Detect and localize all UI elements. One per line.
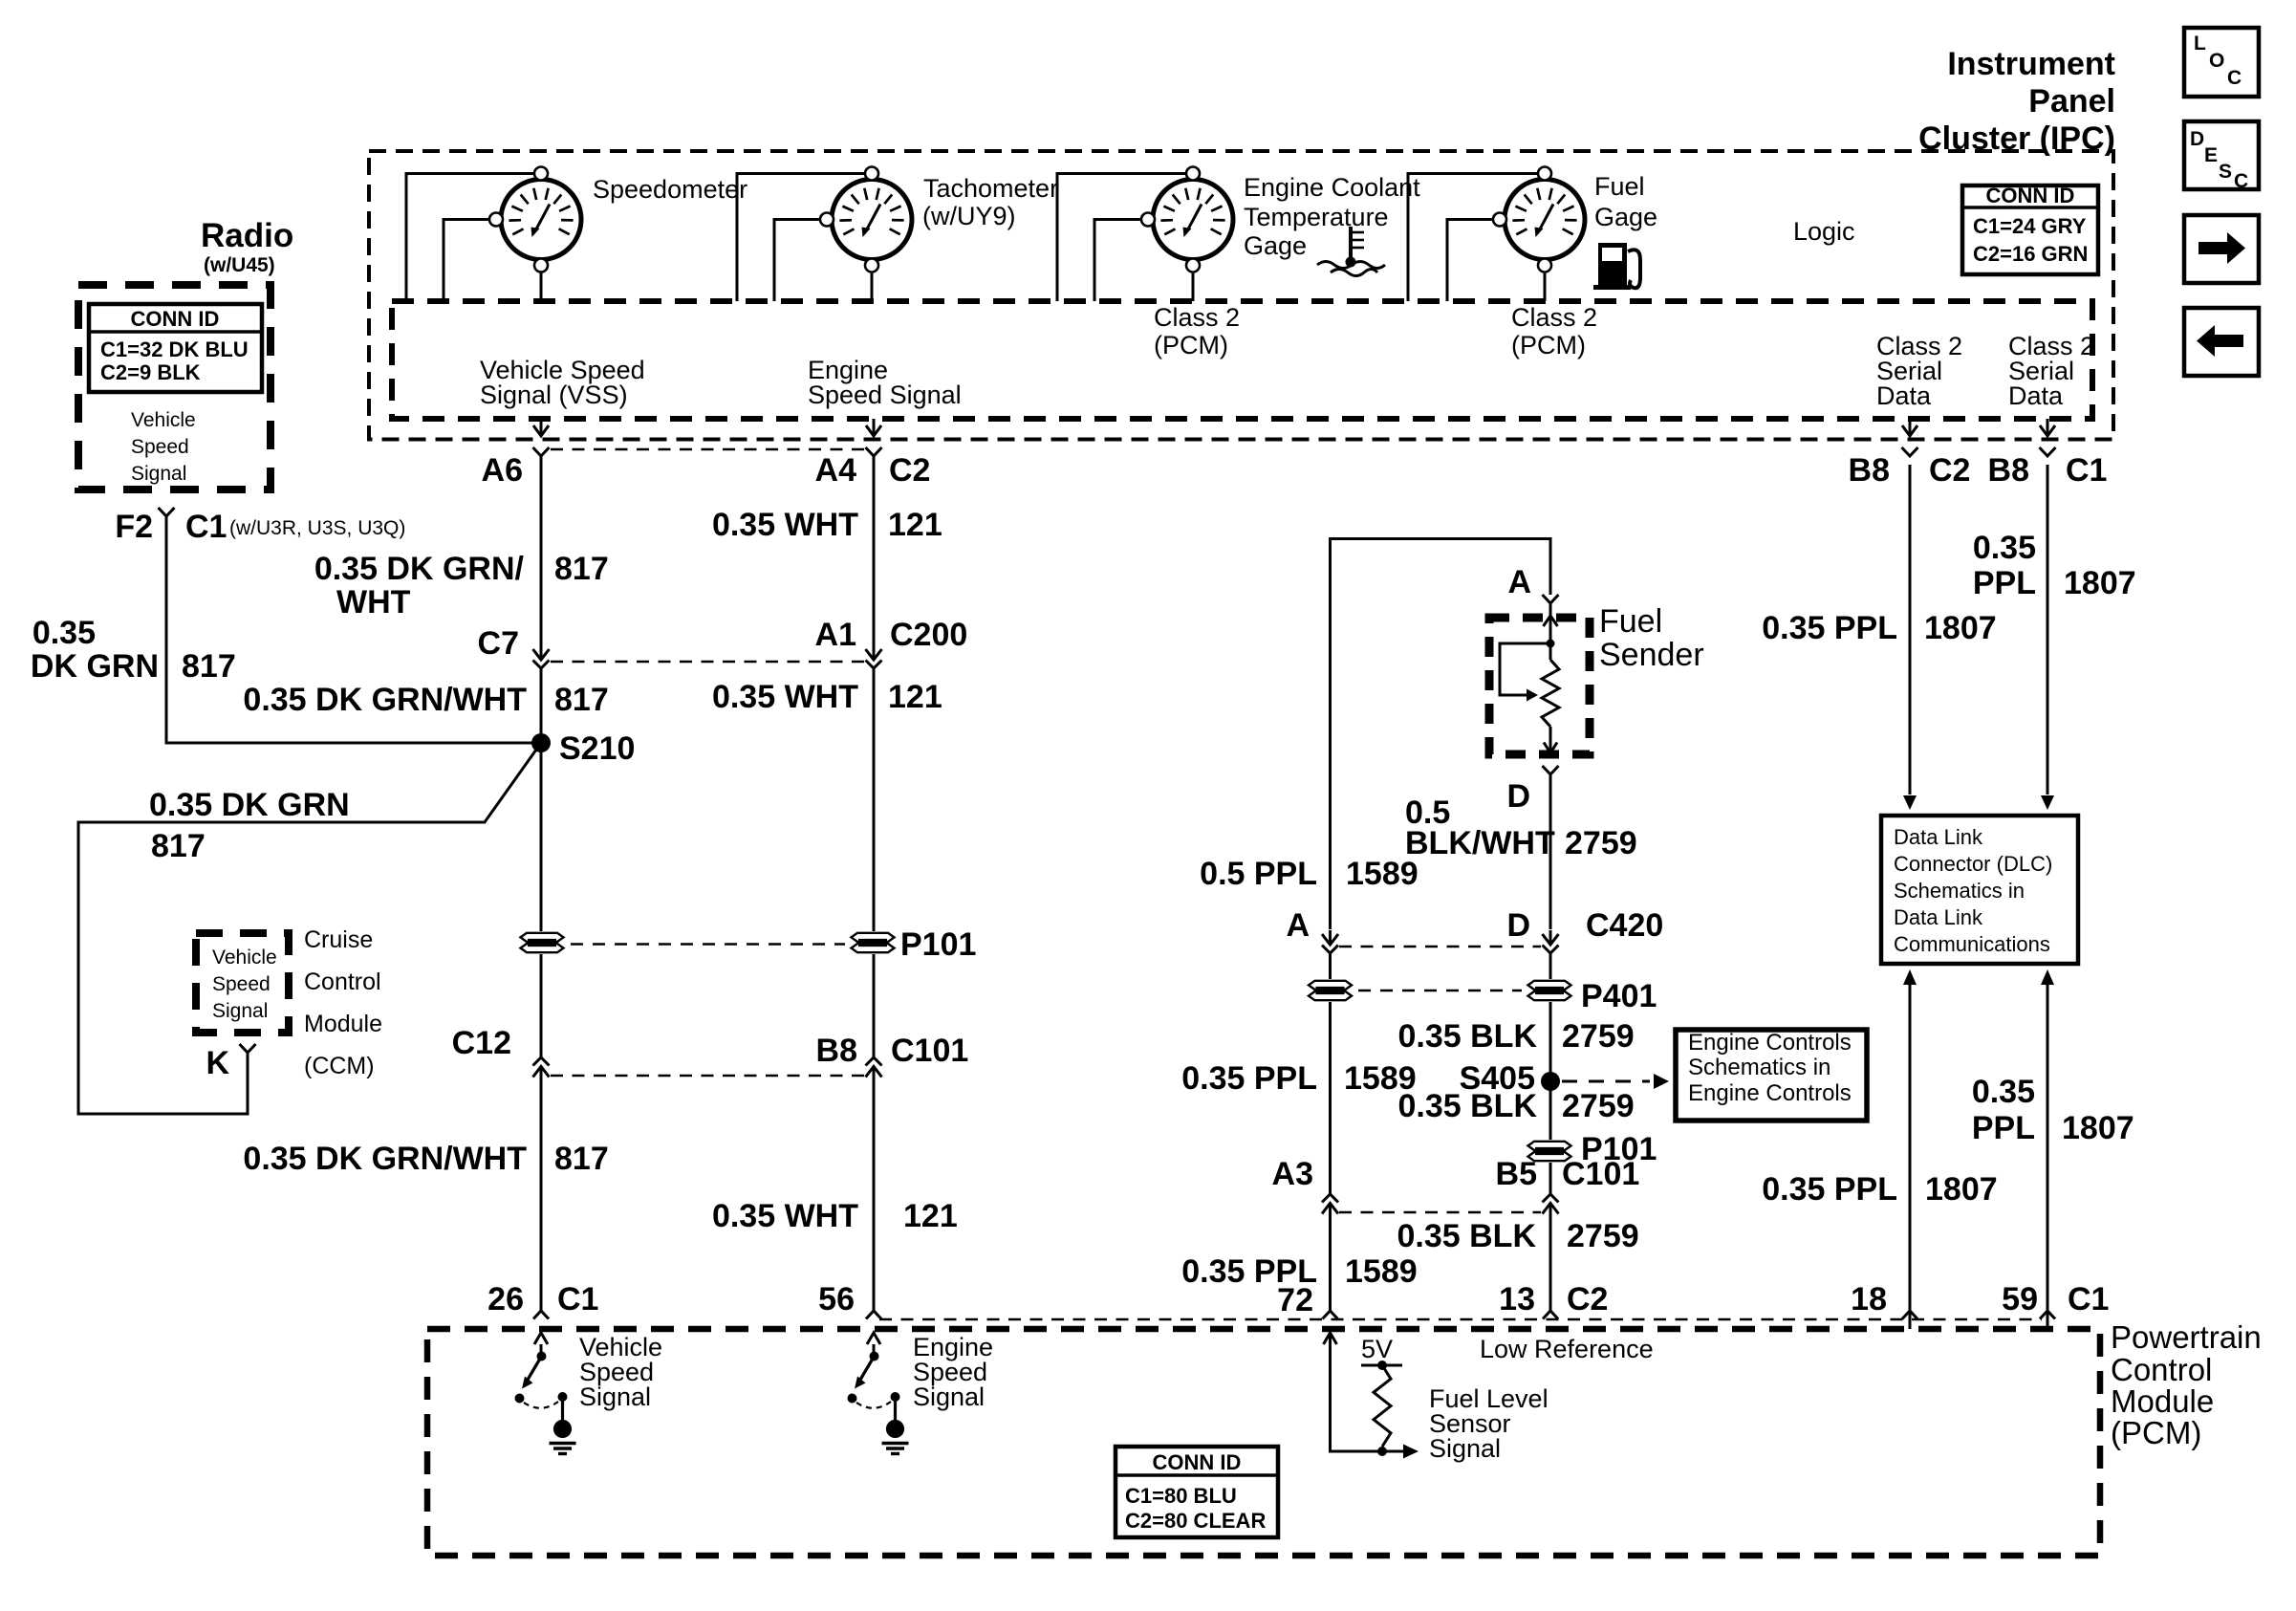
svg-text:A3: A3: [1272, 1156, 1313, 1192]
in-line connector P101 on VSS wire: [521, 933, 564, 942]
svg-text:Fuel: Fuel: [1599, 603, 1662, 640]
harness Y fork below IPC x=566: [533, 447, 550, 456]
harness Y fork below fuel sender: [1543, 766, 1559, 774]
harness Y fork at PCM pin 13: [1543, 1311, 1558, 1319]
svg-text:S210: S210: [559, 730, 635, 767]
svg-text:Connector (DLC): Connector (DLC): [1894, 852, 2052, 876]
nav icon: DESC box: [2184, 121, 2259, 192]
wire: engine speed 121 from A4 to C200: [873, 456, 876, 646]
svg-text:B8: B8: [816, 1033, 857, 1069]
switch: engine speed signal generator: [848, 1344, 909, 1454]
svg-text:PPL: PPL: [1973, 565, 2036, 601]
connector exit arrow at IPC bottom x=2142: [2047, 419, 2049, 435]
wire: Engine Coolant gauge output to connector: [1192, 272, 1195, 302]
svg-text:F2: F2: [115, 509, 153, 545]
svg-text:Signal: Signal: [579, 1382, 651, 1411]
svg-text:A6: A6: [482, 452, 523, 489]
svg-text:Signal: Signal: [131, 463, 186, 485]
svg-text:0.35 BLK: 0.35 BLK: [1398, 1018, 1538, 1055]
wire: 0.35 BLK from C101 to PCM pin 13: [1549, 1227, 1552, 1311]
label: Powertrain Control Module (PCM): [2111, 1319, 2262, 1450]
note box: Engine Controls Schematics in Engine Controls: [1676, 1030, 1867, 1121]
svg-text:Radio: Radio: [201, 217, 293, 254]
wire: VSS 817 from C101 to PCM pin 26: [540, 1090, 543, 1311]
svg-text:(PCM): (PCM): [1511, 331, 1586, 359]
svg-text:0.35 DK GRN/WHT: 0.35 DK GRN/WHT: [243, 1141, 527, 1177]
wire: 0.5 PPL 1589 from jumper to C420: [1329, 669, 1332, 929]
IPC inner dashed sub-box (connector face): [392, 301, 2092, 419]
wire: BLK from P101 to C101: [1549, 1163, 1552, 1194]
svg-text:1807: 1807: [2062, 1110, 2134, 1146]
label: Vehicle Speed Signal (CCM): [212, 947, 277, 1022]
svg-text:C101: C101: [891, 1033, 968, 1069]
connector crossing C101 left fuel wire: [1322, 1194, 1338, 1203]
PCM input arrow pin 72 and 5V pull-up circuit: [1324, 1333, 1337, 1344]
harness Y fork at PCM pin 56: [866, 1311, 881, 1319]
wire: 0.35 DK GRN 817 from S210 to CCM (diagonal + loop): [78, 743, 541, 1114]
svg-text:CONN ID: CONN ID: [131, 307, 220, 331]
wire: class 2 serial data left (0.35 PPL 1807) down to DLC: [1909, 465, 1912, 795]
svg-text:D: D: [1506, 778, 1530, 815]
svg-text:26: 26: [487, 1281, 524, 1317]
gauge: Tachometer: [820, 167, 912, 272]
svg-text:121: 121: [888, 679, 942, 715]
svg-text:Data: Data: [1876, 381, 1932, 410]
svg-text:1807: 1807: [1925, 1171, 1998, 1208]
wire: engine speed 121 from C200 to P101: [873, 668, 876, 931]
wire label 0.35 DK GRN | 817 (radio wire): [31, 615, 236, 685]
wire: fuel sender pin A lead: [1549, 603, 1552, 618]
connector crossing C101 at engine speed wire: [866, 1057, 882, 1066]
svg-text:0.35 BLK: 0.35 BLK: [1398, 1088, 1538, 1124]
wire: BLK from C420 to P401: [1549, 953, 1552, 979]
svg-text:59: 59: [2002, 1281, 2038, 1317]
connector ID table: PCM CONN ID C1=80 BLU / C2=80 CLEAR: [1116, 1447, 1278, 1537]
wire label 0.35 WHT | 121 (mid): [712, 679, 942, 715]
svg-text:Control: Control: [304, 969, 381, 995]
wire: Tachometer gauge left feed: [774, 220, 825, 302]
svg-text:18: 18: [1851, 1281, 1887, 1317]
connector ID table: IPC CONN ID C1=24 GRY / C2=16 GRN: [1962, 184, 2098, 274]
svg-text:Control: Control: [2111, 1352, 2212, 1387]
svg-text:Signal: Signal: [913, 1382, 985, 1411]
connector crossing C420 left wire: [1329, 930, 1332, 944]
svg-text:A4: A4: [815, 452, 857, 489]
icon: fuel pump: [1593, 243, 1640, 290]
svg-text:C2: C2: [889, 452, 930, 489]
svg-text:C200: C200: [890, 617, 967, 653]
svg-text:Gage: Gage: [1244, 231, 1307, 260]
svg-text:56: 56: [818, 1281, 855, 1317]
in-line connector P101 on engine speed wire: [852, 933, 895, 942]
svg-text:WHT: WHT: [336, 584, 411, 620]
wire: VSS 817 from S210 to P101: [540, 743, 543, 931]
svg-text:0.35 DK GRN/: 0.35 DK GRN/: [314, 551, 525, 587]
thin dashed line between P101 halves: [571, 943, 845, 946]
gauge: Engine Coolant: [1141, 167, 1233, 272]
svg-text:0.35 BLK: 0.35 BLK: [1397, 1218, 1537, 1254]
connector crossing C200 at A4 wire: [873, 645, 876, 659]
svg-text:C1: C1: [185, 509, 227, 545]
label: Engine Speed Signal (PCM): [913, 1333, 993, 1411]
wire label 0.35 BLK | 2759 (lower): [1397, 1218, 1639, 1254]
svg-text:Temperature: Temperature: [1244, 203, 1389, 231]
wire: VSS 817 from A6 to C7: [540, 456, 543, 646]
label: Class 2 Serial Data (right): [2008, 332, 2094, 410]
svg-text:A: A: [1286, 907, 1310, 944]
thin dashed connector line C200: [551, 661, 864, 664]
wire label 0.35 BLK | 2759 (below S405): [1398, 1088, 1635, 1124]
svg-text:Cluster (IPC): Cluster (IPC): [1918, 120, 2115, 157]
wire label 0.35 PPL | 1807 (lower right): [1972, 1074, 2134, 1146]
label: Class 2 Serial Data (left): [1876, 332, 1962, 410]
svg-text:0.35 WHT: 0.35 WHT: [712, 507, 858, 543]
svg-text:CONN ID: CONN ID: [1986, 184, 2075, 207]
svg-text:0.5 PPL: 0.5 PPL: [1200, 856, 1317, 892]
wire label 0.35 PPL | 1807 (lower left): [1762, 1171, 1997, 1208]
wire: class 2 serial data right up-arrow from PCM pin 59 to DLC: [2047, 985, 2049, 1329]
wire label 0.35 WHT | 121 (lower): [712, 1198, 958, 1234]
wire label 0.35 DK GRN/ WHT | 817: [314, 551, 609, 620]
label: Fuel Gage: [1594, 172, 1657, 231]
svg-text:Data: Data: [2008, 381, 2064, 410]
svg-text:Engine Controls: Engine Controls: [1688, 1080, 1852, 1106]
svg-text:817: 817: [554, 1141, 609, 1177]
svg-text:C: C: [2227, 67, 2242, 89]
wire label 0.35 PPL | 1589 (S405 row): [1181, 1060, 1416, 1097]
wire: Fuel gauge output to connector: [1544, 272, 1547, 302]
svg-text:Cruise: Cruise: [304, 926, 373, 953]
in-line connector P401 left half: [1309, 981, 1352, 990]
svg-text:BLK/WHT: BLK/WHT: [1405, 825, 1555, 861]
svg-text:817: 817: [182, 648, 236, 685]
svg-text:Module: Module: [304, 1011, 382, 1037]
wire label 0.5 PPL | 1589: [1200, 856, 1418, 892]
svg-text:13: 13: [1499, 1281, 1535, 1317]
harness Y fork at PCM pin 59: [2040, 1311, 2055, 1319]
svg-text:Module: Module: [2111, 1383, 2214, 1419]
wire: Speedometer gauge top feed: [406, 174, 534, 302]
svg-text:C12: C12: [452, 1025, 511, 1061]
svg-text:1589: 1589: [1346, 856, 1419, 892]
connector ID table: Radio CONN ID C1=32 DK BLU / C2=9 BLK: [89, 304, 262, 392]
fuel sender internal arrow up to pin A: [1544, 616, 1558, 626]
fuel sender wiper node: [1547, 640, 1555, 648]
connector crossing C101 right fuel wire: [1543, 1194, 1559, 1203]
gauge: Speedometer: [489, 167, 581, 272]
wire: Tachometer gauge top feed: [737, 174, 865, 302]
svg-text:Fuel: Fuel: [1594, 172, 1645, 201]
wire: engine speed 121 from C101 to PCM pin 56: [873, 1090, 876, 1311]
connector exit arrow at IPC bottom x=914: [873, 419, 876, 435]
wire: PPL from C420 to P401: [1329, 953, 1332, 979]
wire: Fuel gauge left feed: [1447, 220, 1498, 302]
svg-text:Class 2: Class 2: [1511, 303, 1597, 332]
harness Y fork at PCM pin 18: [1902, 1311, 1917, 1319]
svg-text:C7: C7: [478, 625, 519, 662]
svg-text:2759: 2759: [1565, 825, 1637, 861]
svg-text:S: S: [2219, 161, 2232, 183]
wire: class 2 serial data right (0.35 PPL 1807) down to DLC: [2047, 465, 2049, 795]
svg-text:C: C: [2234, 170, 2248, 192]
label: Class 2 (PCM) under fuel gage: [1511, 303, 1597, 359]
note box: Data Link Connector (DLC) Schematics in Data Link Communications: [1881, 816, 2078, 964]
svg-text:Gage: Gage: [1594, 203, 1657, 231]
svg-text:817: 817: [554, 682, 609, 718]
in-line connector P101 on fuel BLK wire: [1528, 1142, 1571, 1150]
svg-text:Signal (VSS): Signal (VSS): [480, 381, 628, 409]
svg-text:C2: C2: [1567, 1281, 1608, 1317]
label: Fuel Sender: [1599, 603, 1704, 673]
harness Y fork at PCM pin 72: [1323, 1311, 1338, 1319]
harness Y fork below IPC x=1998: [1902, 447, 1918, 456]
svg-text:PPL: PPL: [1972, 1110, 2035, 1146]
svg-text:D: D: [1506, 907, 1530, 944]
splice S210: [531, 733, 551, 752]
svg-text:B8: B8: [1849, 452, 1890, 489]
svg-text:Powertrain: Powertrain: [2111, 1319, 2262, 1355]
svg-text:Panel: Panel: [2028, 83, 2115, 120]
svg-text:Vehicle: Vehicle: [212, 947, 277, 969]
svg-text:C2=16 GRN: C2=16 GRN: [1973, 242, 2088, 266]
svg-text:Class 2: Class 2: [1154, 303, 1240, 332]
svg-text:L: L: [2194, 33, 2206, 54]
wire: 0.35 BLK 2759 from P401 to S405: [1549, 1002, 1552, 1081]
svg-text:Speed: Speed: [131, 436, 189, 458]
wire: radio VSS output down and right to S210: [166, 516, 533, 743]
harness Y fork above fuel sender: [1543, 595, 1559, 603]
wire: fuel sender jumper from PPL column top to sender pin A: [1331, 539, 1551, 670]
thin dashed connector line C2 between A6 and A4: [551, 448, 864, 451]
svg-text:0.35 WHT: 0.35 WHT: [712, 679, 858, 715]
svg-text:C420: C420: [1586, 907, 1663, 944]
svg-text:817: 817: [554, 551, 609, 587]
label: Radio (w/U45): [201, 217, 293, 276]
svg-text:0.35 WHT: 0.35 WHT: [712, 1198, 858, 1234]
svg-text:(w/UY9): (w/UY9): [922, 202, 1016, 230]
wire label 0.35 BLK | 2759 (above S405): [1398, 1018, 1635, 1055]
wire: VSS 817 from P101 to C101: [540, 954, 543, 1057]
nav icon: LOC box: [2184, 28, 2259, 97]
nav icon: forward arrow box: [2184, 215, 2259, 283]
module box: Powertrain Control Module dashed boundary: [427, 1329, 2100, 1556]
svg-text:Data Link: Data Link: [1894, 905, 1983, 929]
svg-text:Logic: Logic: [1793, 217, 1855, 246]
wire: Engine Coolant gauge top feed: [1057, 174, 1186, 302]
svg-text:2759: 2759: [1567, 1218, 1639, 1254]
fuel sender wiper arm: [1500, 643, 1550, 695]
thin dashed connector line C101 (fuel): [1339, 1211, 1541, 1214]
resistor: fuel sender variable resistor: [1549, 647, 1552, 660]
svg-text:A: A: [1507, 564, 1531, 600]
wire label 0.35 DK GRN/WHT | 817 (lower): [243, 1141, 608, 1177]
connector exit arrow at IPC bottom x=566: [540, 419, 543, 435]
wire: 0.5 BLK/WHT 2759 from sender D to C420: [1549, 774, 1552, 929]
svg-text:B8: B8: [1988, 452, 2029, 489]
svg-text:Data Link: Data Link: [1894, 825, 1983, 849]
svg-text:C1: C1: [2068, 1281, 2109, 1317]
connector crossing C420 right wire: [1549, 930, 1552, 944]
svg-text:121: 121: [903, 1198, 958, 1234]
label: Tachometer (w/UY9): [922, 174, 1058, 230]
switch: vehicle speed signal generator: [515, 1344, 576, 1454]
svg-text:121: 121: [888, 507, 942, 543]
wire: VSS 817 from C200 to S210: [540, 668, 543, 743]
svg-text:K: K: [206, 1045, 229, 1081]
dashed reference arrow from S405 to Engine Controls note: [1562, 1080, 1650, 1083]
wire label 0.35 DK GRN/WHT | 817: [243, 682, 608, 718]
wire label 0.5 BLK/WHT | 2759: [1405, 795, 1637, 861]
svg-text:E: E: [2204, 144, 2218, 166]
resistor: fuel level sensor pull-up: [1361, 1361, 1402, 1456]
svg-text:O: O: [2209, 50, 2224, 72]
svg-text:B5: B5: [1496, 1156, 1537, 1192]
wire: Engine Coolant gauge left feed: [1094, 220, 1146, 302]
svg-text:Sender: Sender: [1599, 637, 1704, 673]
PCM input arrow pin 56: [867, 1333, 880, 1344]
connector exit arrow at IPC bottom x=1998: [1909, 419, 1912, 435]
svg-text:CONN ID: CONN ID: [1153, 1450, 1242, 1474]
svg-text:1807: 1807: [1924, 610, 1997, 646]
wire: class 2 serial data left up-arrow from PCM pin 18 to DLC: [1909, 985, 1912, 1329]
label: Cruise Control Module (CCM): [304, 926, 382, 1079]
svg-text:Signal: Signal: [1429, 1434, 1501, 1463]
svg-text:Schematics in: Schematics in: [1688, 1055, 1830, 1080]
svg-text:DK GRN: DK GRN: [31, 648, 159, 685]
svg-text:(w/U3R, U3S, U3Q): (w/U3R, U3S, U3Q): [229, 517, 405, 539]
wire: engine speed 121 from P101 to C101: [873, 954, 876, 1057]
fuel sender internal arrow down to pin D: [1549, 727, 1552, 752]
svg-text:5V: 5V: [1361, 1335, 1393, 1363]
nav icon: back arrow box: [2184, 308, 2259, 376]
label: Vehicle Speed Signal (VSS): [480, 356, 645, 409]
svg-text:(PCM): (PCM): [2111, 1415, 2201, 1450]
svg-text:Low Reference: Low Reference: [1480, 1335, 1654, 1363]
svg-text:P401: P401: [1581, 978, 1657, 1014]
svg-text:Communications: Communications: [1894, 932, 2050, 956]
svg-text:0.35 PPL: 0.35 PPL: [1181, 1060, 1317, 1097]
wire: Speedometer gauge left feed: [444, 220, 494, 302]
connector crossing C101 at VSS wire: [533, 1057, 550, 1066]
svg-text:C1=80 BLU: C1=80 BLU: [1125, 1484, 1237, 1508]
svg-text:0.35 DK GRN: 0.35 DK GRN: [149, 787, 350, 823]
wire label 0.35 WHT | 121 (upper): [712, 507, 942, 543]
svg-text:0.35 DK GRN/WHT: 0.35 DK GRN/WHT: [243, 682, 527, 718]
svg-text:1807: 1807: [2064, 565, 2136, 601]
svg-text:C101: C101: [1562, 1156, 1639, 1192]
svg-text:Engine Coolant: Engine Coolant: [1244, 173, 1420, 202]
thin dashed connector line C101 (VSS-A4): [551, 1075, 864, 1078]
svg-text:A1: A1: [815, 617, 856, 653]
svg-text:C1=24 GRY: C1=24 GRY: [1973, 214, 2087, 238]
svg-text:C2=9 BLK: C2=9 BLK: [100, 360, 201, 384]
svg-text:C2=80 CLEAR: C2=80 CLEAR: [1125, 1509, 1266, 1533]
module box: Fuel Sender dashed boundary: [1489, 618, 1590, 754]
splice S405: [1541, 1072, 1560, 1091]
wire: Fuel gauge top feed: [1408, 174, 1538, 302]
svg-text:Speed: Speed: [212, 973, 271, 995]
svg-text:(w/U45): (w/U45): [204, 254, 275, 276]
svg-text:Schematics in: Schematics in: [1894, 879, 2025, 903]
svg-text:D: D: [2190, 128, 2204, 150]
harness Y fork at PCM pin 26: [533, 1311, 549, 1319]
svg-text:(CCM): (CCM): [304, 1053, 375, 1079]
svg-text:0.35: 0.35: [32, 615, 96, 651]
svg-text:C2: C2: [1929, 452, 1970, 489]
wire: 0.35 PPL from C101 to PCM pin 72: [1329, 1227, 1332, 1311]
connector crossing C200 at VSS wire: [540, 645, 543, 659]
wire: 0.35 BLK 2759 from S405 to P101: [1549, 1081, 1552, 1140]
wire label 0.35 PPL | 1589 (lower): [1181, 1253, 1417, 1290]
label: Engine Coolant Temperature Gage: [1244, 173, 1420, 260]
thin dashed connector line C420: [1339, 946, 1541, 948]
icon: coolant temperature (thermometer over liquid): [1317, 227, 1385, 276]
svg-text:0.35 PPL: 0.35 PPL: [1762, 610, 1897, 646]
svg-text:Speedometer: Speedometer: [593, 175, 747, 204]
svg-text:Vehicle: Vehicle: [131, 409, 196, 431]
svg-text:817: 817: [151, 828, 206, 864]
label: Vehicle Speed Signal (radio): [131, 409, 196, 485]
harness Y fork below radio: [159, 508, 175, 516]
thin dashed line between P401 halves: [1358, 990, 1522, 992]
wire: Tachometer gauge output to connector: [871, 272, 874, 302]
svg-text:Tachometer: Tachometer: [923, 174, 1058, 203]
svg-text:(PCM): (PCM): [1154, 331, 1228, 359]
wire label 0.35 PPL | 1807 (upper right): [1973, 530, 2136, 601]
PCM input arrow pin 26: [534, 1333, 548, 1344]
svg-text:Speed Signal: Speed Signal: [808, 381, 962, 409]
svg-text:C1=32 DK BLU: C1=32 DK BLU: [100, 337, 249, 361]
label: Fuel Level Sensor Signal: [1429, 1384, 1549, 1463]
svg-text:P101: P101: [900, 926, 976, 963]
svg-text:0.35: 0.35: [1973, 530, 2036, 566]
svg-text:Instrument: Instrument: [1947, 46, 2115, 82]
label: Vehicle Speed Signal (PCM): [579, 1333, 662, 1411]
svg-text:0.35 PPL: 0.35 PPL: [1762, 1171, 1897, 1208]
svg-text:Signal: Signal: [212, 1000, 268, 1022]
module box: Instrument Panel Cluster (IPC) outer dashed boundary: [369, 151, 2113, 440]
module box: Cruise Control Module dashed boundary: [196, 933, 289, 1033]
svg-text:C1: C1: [2066, 452, 2107, 489]
wire: Speedometer gauge output to connector: [540, 272, 543, 302]
module box: Radio dashed boundary: [78, 285, 271, 490]
wire: 0.35 PPL 1589 from P401 to C101: [1329, 1002, 1332, 1194]
svg-text:1589: 1589: [1345, 1253, 1418, 1290]
label: Engine Speed Signal: [808, 356, 962, 409]
harness Y fork below IPC x=914: [866, 447, 882, 456]
label: Class 2 (PCM) under ECT gage: [1154, 303, 1240, 359]
in-line connector P401 right half: [1528, 981, 1571, 990]
wire label 0.35 PPL | 1807 (upper left): [1762, 610, 1996, 646]
thin dashed PCM connector line: [879, 1318, 2042, 1321]
gauge: Fuel: [1493, 167, 1585, 272]
label: Instrument Panel Cluster (IPC): [1918, 46, 2115, 157]
harness Y fork below CCM: [240, 1044, 256, 1053]
svg-text:C1: C1: [557, 1281, 598, 1317]
svg-text:72: 72: [1277, 1282, 1313, 1318]
harness Y fork below IPC x=2142: [2040, 447, 2056, 456]
svg-text:Engine Controls: Engine Controls: [1688, 1030, 1852, 1056]
svg-text:0.35: 0.35: [1972, 1074, 2035, 1110]
svg-text:2759: 2759: [1562, 1088, 1635, 1124]
svg-text:2759: 2759: [1562, 1018, 1635, 1055]
